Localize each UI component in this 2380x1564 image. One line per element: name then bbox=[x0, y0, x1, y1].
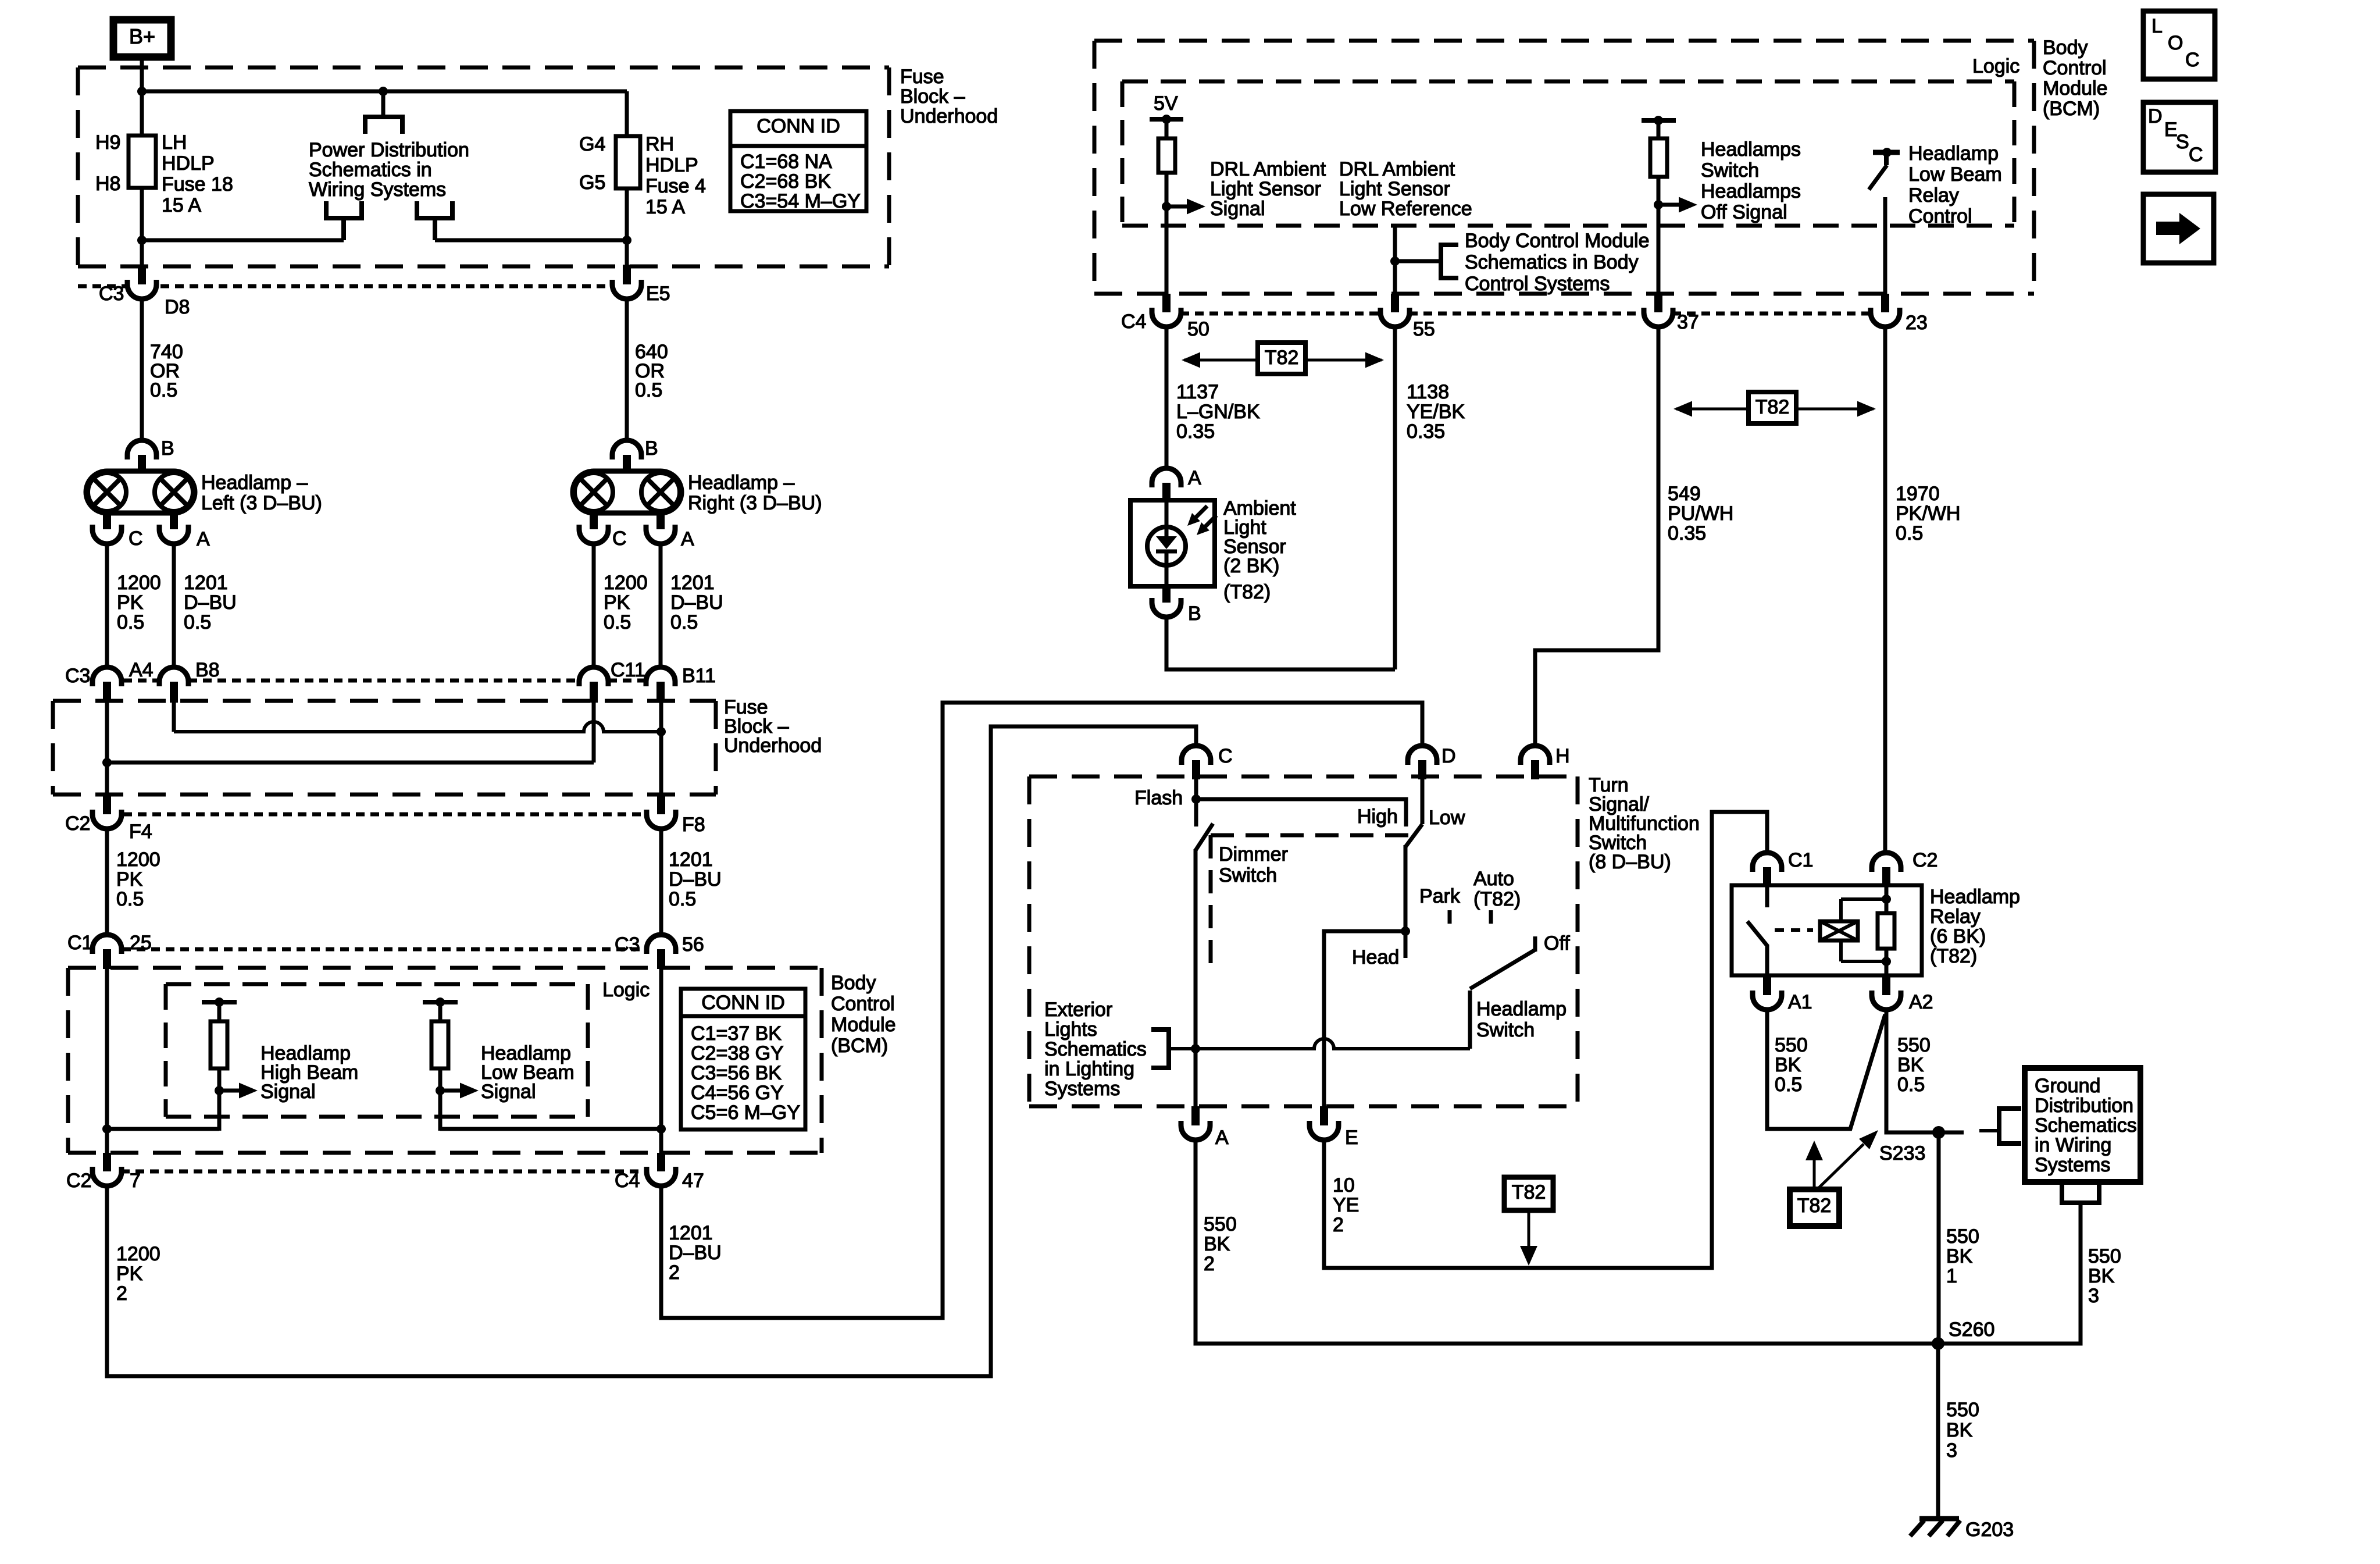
label wire 10 YE 2 bbox=[1333, 1174, 1359, 1236]
connector row dotted line F4/F8 bbox=[123, 813, 647, 817]
svg-text:PK/WH: PK/WH bbox=[1896, 503, 1960, 525]
label wire 1201 D-BU 0.5 left bbox=[184, 572, 237, 633]
wire tap to resistor high beam bbox=[217, 1002, 222, 1023]
label turn signal multifunction switch bbox=[1589, 774, 1700, 873]
svg-text:D8: D8 bbox=[165, 296, 190, 318]
svg-text:0.5: 0.5 bbox=[604, 611, 631, 633]
label wire 1200 PK 0.5 second bbox=[116, 849, 160, 910]
arrow headlamp low beam signal bbox=[440, 1083, 479, 1099]
label 55 pin bbox=[1413, 318, 1435, 340]
label exterior lights schematics bbox=[1044, 999, 1147, 1100]
arrow headlamp high beam signal bbox=[219, 1083, 258, 1099]
reference bracket exterior lights bbox=[1151, 1029, 1196, 1068]
svg-text:Switch: Switch bbox=[1219, 864, 1277, 886]
label H8 pin bbox=[95, 173, 120, 195]
voltage tap 5V bbox=[1150, 115, 1183, 124]
svg-text:550: 550 bbox=[1946, 1399, 1979, 1421]
label C4 pin lower bbox=[615, 1170, 640, 1192]
label low bbox=[1429, 807, 1465, 829]
svg-text:47: 47 bbox=[682, 1170, 704, 1192]
svg-text:G5: G5 bbox=[579, 172, 605, 194]
svg-text:(T82): (T82) bbox=[1223, 581, 1271, 603]
connector B arc (right headlamp) bbox=[612, 440, 641, 459]
svg-text:C3: C3 bbox=[99, 283, 124, 305]
connector C stub right headlamp bbox=[590, 512, 598, 529]
connector C arc right headlamp bbox=[579, 525, 608, 544]
svg-text:10: 10 bbox=[1333, 1174, 1355, 1196]
connector 23 arc bbox=[1871, 308, 1900, 327]
connector F8 arc bbox=[647, 810, 676, 829]
svg-text:0.5: 0.5 bbox=[1896, 522, 1923, 544]
svg-text:5V: 5V bbox=[1154, 92, 1178, 115]
svg-text:Off: Off bbox=[1544, 932, 1570, 954]
splice S260 bbox=[1932, 1337, 1944, 1350]
connector 23 stub bbox=[1881, 294, 1889, 312]
label C3 bbox=[99, 283, 124, 305]
svg-text:C2=68 BK: C2=68 BK bbox=[740, 170, 831, 193]
wire LH fuse to C3 connector bbox=[140, 188, 144, 279]
connector C arc left headlamp bbox=[92, 525, 122, 544]
svg-text:in Lighting: in Lighting bbox=[1044, 1058, 1134, 1080]
relay coil bbox=[1820, 899, 1886, 961]
wire B8 down bbox=[172, 703, 176, 732]
label C2 fuse block bbox=[65, 813, 90, 835]
svg-text:Schematics in: Schematics in bbox=[309, 159, 432, 181]
svg-text:C1: C1 bbox=[1788, 849, 1813, 871]
junction node low beam signal bbox=[436, 1086, 445, 1095]
connector C3 pin D8 stub bbox=[138, 265, 146, 284]
wire 1200 PK 2 to dimmer switch C bbox=[107, 726, 1196, 1376]
label headlamp high beam signal bbox=[261, 1042, 358, 1103]
junction node net1200 inside fuse block bbox=[102, 758, 112, 767]
label C right headlamp bbox=[612, 528, 627, 550]
svg-text:E: E bbox=[1345, 1127, 1358, 1149]
connector C1 stub relay bbox=[1763, 867, 1771, 886]
label logic lower bbox=[602, 979, 650, 1001]
svg-text:HDLP: HDLP bbox=[162, 152, 215, 174]
svg-text:C2: C2 bbox=[66, 1170, 91, 1192]
connector A4 arc bbox=[92, 667, 122, 686]
connector C stub left headlamp bbox=[103, 512, 111, 529]
connector F4 arc bbox=[92, 810, 122, 829]
junction node flash bbox=[1191, 795, 1201, 804]
svg-text:1200: 1200 bbox=[117, 572, 161, 594]
reference bracket power distribution output left bbox=[326, 201, 362, 240]
label B11 bbox=[682, 665, 716, 687]
wire B11 to F8 bbox=[659, 703, 663, 796]
wire D to low lever bbox=[1421, 779, 1425, 824]
voltage tap low beam bbox=[423, 997, 458, 1007]
junction node on wire 25-7 bbox=[102, 1124, 112, 1134]
connector row dotted line 25/56 bbox=[122, 947, 646, 952]
connector C arc switch bbox=[1182, 746, 1211, 765]
label wire 1970 PK/WH bbox=[1896, 483, 1960, 544]
svg-text:C2: C2 bbox=[65, 813, 90, 835]
svg-text:BK: BK bbox=[2088, 1265, 2115, 1287]
svg-text:Body: Body bbox=[831, 972, 876, 994]
connector row dotted line 7/47 bbox=[121, 1170, 647, 1174]
wire resistor high beam down bbox=[217, 1068, 222, 1131]
svg-text:1: 1 bbox=[1946, 1265, 1957, 1287]
wire right bracket to RH fuse bbox=[435, 238, 627, 243]
svg-text:Signal: Signal bbox=[261, 1081, 316, 1103]
wire bus to LH fuse bbox=[140, 91, 144, 138]
label B sensor bbox=[1188, 603, 1201, 625]
label C3 second bbox=[65, 665, 90, 687]
label C switch bbox=[1218, 745, 1233, 767]
svg-text:(T82): (T82) bbox=[1473, 888, 1521, 910]
reference bracket power distribution output right bbox=[417, 201, 452, 240]
connector F8 stub bbox=[657, 795, 665, 814]
wire bus branch down bbox=[381, 91, 386, 119]
contact park tick bbox=[1448, 910, 1452, 924]
label D switch bbox=[1441, 745, 1456, 767]
label wire 550 BK 0.5 A1 bbox=[1775, 1034, 1808, 1096]
logic dashed box upper bbox=[1122, 81, 2014, 226]
label flash bbox=[1134, 787, 1183, 809]
logic dashed box lower bbox=[166, 984, 588, 1117]
svg-text:549: 549 bbox=[1668, 483, 1701, 505]
svg-text:BK: BK bbox=[1897, 1054, 1924, 1076]
svg-text:B+: B+ bbox=[129, 24, 155, 48]
svg-text:Right (3 D–BU): Right (3 D–BU) bbox=[688, 492, 822, 514]
label park bbox=[1419, 885, 1461, 907]
connector A arc sensor bbox=[1152, 468, 1181, 487]
wire 1201 D-BU 2 to dimmer switch D bbox=[661, 703, 1422, 1318]
svg-text:PK: PK bbox=[116, 868, 143, 890]
label head bbox=[1352, 946, 1399, 968]
junction node bus to power distribution bbox=[379, 87, 388, 96]
label LH HDLP fuse bbox=[162, 131, 233, 216]
svg-text:1201: 1201 bbox=[184, 572, 228, 594]
label ground distribution schematics bbox=[2035, 1075, 2137, 1176]
svg-text:B: B bbox=[645, 437, 658, 459]
wire flash to high contact bbox=[1196, 799, 1406, 826]
connector C1-25 arc bbox=[92, 935, 122, 954]
wire high beam branch to net1200 bbox=[107, 1127, 219, 1131]
svg-text:D–BU: D–BU bbox=[669, 1242, 722, 1264]
svg-text:C3: C3 bbox=[65, 665, 90, 687]
label B right headlamp bbox=[645, 437, 658, 459]
connector B8 arc bbox=[159, 667, 188, 686]
wire tap to resistor off signal bbox=[1657, 120, 1661, 140]
svg-text:T82: T82 bbox=[1797, 1195, 1832, 1217]
wire 1200 PK right low beam bbox=[592, 543, 596, 669]
DESC legend box bbox=[2143, 102, 2215, 172]
svg-text:15 A: 15 A bbox=[645, 196, 685, 218]
svg-text:Headlamp –: Headlamp – bbox=[201, 472, 308, 494]
svg-text:O: O bbox=[2168, 32, 2183, 54]
svg-text:B: B bbox=[161, 437, 174, 459]
svg-text:0.35: 0.35 bbox=[1176, 421, 1215, 443]
svg-text:Off Signal: Off Signal bbox=[1701, 201, 1787, 223]
svg-text:550: 550 bbox=[1946, 1225, 1979, 1248]
label A2 relay bbox=[1909, 991, 1933, 1013]
label headlamps switch headlamps off signal bbox=[1701, 138, 1801, 223]
label wire 1200 PK 0.5 left bbox=[117, 572, 161, 633]
svg-text:Schematics in Body: Schematics in Body bbox=[1465, 251, 1639, 273]
connector A1 arc relay bbox=[1753, 991, 1782, 1010]
svg-text:Control: Control bbox=[1908, 205, 1972, 227]
label wire 740 OR 0.5 bbox=[150, 341, 183, 401]
wire 1200 PK left low beam bbox=[105, 543, 109, 669]
label H switch bbox=[1555, 745, 1570, 767]
svg-text:Logic: Logic bbox=[1972, 55, 2019, 77]
reference bracket body control module schematics bbox=[1441, 245, 1458, 278]
svg-text:D: D bbox=[2148, 105, 2163, 127]
LOC legend box bbox=[2143, 11, 2215, 79]
dimmer switch dashed outline bbox=[1211, 835, 1413, 967]
wire B+ to bus bbox=[140, 57, 144, 91]
svg-text:Fuse: Fuse bbox=[900, 66, 944, 88]
svg-text:C3: C3 bbox=[615, 934, 640, 956]
resistor headlamp low beam signal bbox=[431, 1021, 448, 1068]
ground distribution schematics box bbox=[2025, 1068, 2140, 1182]
label 56 pin bbox=[682, 934, 704, 956]
wire 1201 D-BU right high beam bbox=[659, 543, 663, 669]
label C4 pin upper bbox=[1121, 311, 1146, 333]
svg-text:Schematics: Schematics bbox=[1044, 1038, 1147, 1060]
label power distribution reference bbox=[309, 139, 469, 201]
label C1 pin bbox=[67, 932, 92, 954]
bus wire B+ feed bbox=[142, 90, 627, 94]
svg-text:Lights: Lights bbox=[1044, 1018, 1097, 1041]
label G203 bbox=[1965, 1519, 2014, 1541]
svg-text:D–BU: D–BU bbox=[184, 592, 237, 614]
connector E5 stub bbox=[623, 265, 631, 284]
light arrows into sensor bbox=[1187, 506, 1216, 535]
svg-text:A: A bbox=[1188, 467, 1201, 489]
svg-text:1137: 1137 bbox=[1176, 381, 1219, 403]
svg-text:1201: 1201 bbox=[670, 572, 715, 594]
body control module dashed box lower bbox=[68, 968, 822, 1153]
CONN ID table fuse block bbox=[730, 111, 866, 212]
label A sensor bbox=[1188, 467, 1201, 489]
svg-text:T82: T82 bbox=[1755, 396, 1790, 418]
wire 740 OR left headlamp feed bbox=[140, 299, 144, 441]
svg-text:HDLP: HDLP bbox=[645, 154, 698, 176]
svg-text:Switch: Switch bbox=[1701, 159, 1759, 181]
label 23 pin bbox=[1906, 312, 1928, 334]
svg-text:Underhood: Underhood bbox=[900, 105, 998, 127]
wire resistor off signal down bbox=[1657, 177, 1661, 295]
svg-text:Signal: Signal bbox=[481, 1081, 536, 1103]
wire bus to RH fuse bbox=[625, 91, 629, 138]
label 37 pin bbox=[1677, 311, 1699, 333]
svg-text:YE: YE bbox=[1333, 1194, 1359, 1216]
relay K headlamp relay box bbox=[1732, 885, 1922, 975]
contact auto tick bbox=[1489, 910, 1493, 924]
connector row dotted line C3/E5 bbox=[78, 284, 611, 288]
connector A stub right headlamp bbox=[656, 512, 665, 529]
label headlamp low beam signal bbox=[481, 1042, 575, 1103]
svg-text:2: 2 bbox=[1204, 1253, 1215, 1275]
connector C2-7 stub bbox=[103, 1153, 111, 1171]
voltage tap high beam bbox=[202, 997, 237, 1007]
svg-text:H8: H8 bbox=[95, 173, 120, 195]
svg-text:(8 D–BU): (8 D–BU) bbox=[1589, 851, 1671, 873]
svg-text:D: D bbox=[1441, 745, 1456, 767]
junction node headlamps off signal bbox=[1654, 200, 1663, 209]
arrow DRL ambient light sensor signal bbox=[1166, 199, 1205, 215]
contact head stub bbox=[1404, 931, 1408, 958]
connector E arc switch bbox=[1309, 1121, 1339, 1140]
svg-text:Control: Control bbox=[2043, 57, 2107, 79]
connector 37 stub bbox=[1654, 294, 1662, 312]
svg-text:(6 BK): (6 BK) bbox=[1930, 925, 1986, 947]
svg-text:C4=56 GY: C4=56 GY bbox=[691, 1082, 784, 1104]
label wire 550 BK 0.5 A2 bbox=[1897, 1034, 1931, 1096]
connector A stub left headlamp bbox=[170, 512, 178, 529]
junction node net1201 at B11 bbox=[656, 727, 666, 736]
svg-text:550: 550 bbox=[1897, 1034, 1931, 1056]
svg-text:1201: 1201 bbox=[669, 1222, 713, 1244]
svg-text:DRL Ambient: DRL Ambient bbox=[1210, 158, 1326, 180]
svg-text:Auto: Auto bbox=[1473, 868, 1514, 890]
svg-text:0.5: 0.5 bbox=[117, 611, 144, 633]
svg-text:0.5: 0.5 bbox=[670, 611, 698, 633]
svg-text:0.35: 0.35 bbox=[1407, 421, 1445, 443]
svg-text:C2: C2 bbox=[1912, 849, 1937, 871]
svg-text:PU/WH: PU/WH bbox=[1668, 503, 1733, 525]
T82 span arrow 37-23 bbox=[1674, 392, 1876, 423]
label wire 550 BK 3 right bbox=[2088, 1245, 2121, 1307]
wire resistor low beam down bbox=[438, 1068, 443, 1131]
connector row dotted line BCM upper bbox=[1180, 312, 1871, 316]
label F8 bbox=[682, 814, 705, 836]
svg-text:C5=6 M–GY: C5=6 M–GY bbox=[691, 1102, 800, 1124]
svg-text:C1=68 NA: C1=68 NA bbox=[740, 151, 832, 173]
svg-text:(T82): (T82) bbox=[1930, 945, 1977, 967]
label wire 549 PU/WH bbox=[1668, 483, 1733, 544]
label wire 1201 D-BU 0.5 second bbox=[669, 849, 722, 910]
label wire 640 OR 0.5 bbox=[635, 341, 668, 401]
junction node LH fuse output bbox=[137, 236, 147, 245]
svg-text:Module: Module bbox=[2043, 77, 2108, 99]
svg-text:DRL Ambient: DRL Ambient bbox=[1339, 158, 1455, 180]
svg-text:Headlamps: Headlamps bbox=[1701, 138, 1801, 161]
wire 10 YE 2 E to relay C1 bbox=[1324, 812, 1767, 1268]
connector C4-50 stub bbox=[1162, 294, 1171, 312]
wire C2 through relay bbox=[1885, 885, 1889, 975]
svg-text:(BCM): (BCM) bbox=[831, 1035, 888, 1057]
svg-text:Headlamps: Headlamps bbox=[1701, 180, 1801, 202]
svg-text:G4: G4 bbox=[579, 133, 605, 155]
connector F4 stub bbox=[103, 795, 111, 814]
svg-text:Relay: Relay bbox=[1930, 906, 1981, 928]
svg-text:50: 50 bbox=[1187, 318, 1209, 340]
label D8 bbox=[165, 296, 190, 318]
svg-text:Body: Body bbox=[2043, 37, 2088, 59]
svg-text:BK: BK bbox=[1946, 1245, 1973, 1267]
junction node high beam signal bbox=[215, 1086, 224, 1095]
switch headlamp switch lever bbox=[1470, 936, 1535, 989]
svg-text:Head: Head bbox=[1352, 946, 1399, 968]
svg-text:Headlamp: Headlamp bbox=[1476, 998, 1567, 1020]
label body control module schematics bbox=[1465, 230, 1650, 295]
svg-text:Control Systems: Control Systems bbox=[1465, 273, 1610, 295]
svg-text:YE/BK: YE/BK bbox=[1407, 401, 1465, 423]
power feed B+ symbol bbox=[113, 20, 171, 57]
svg-text:Systems: Systems bbox=[2035, 1154, 2110, 1176]
svg-text:C: C bbox=[1218, 745, 1233, 767]
svg-text:0.5: 0.5 bbox=[1775, 1074, 1802, 1096]
label A switch bbox=[1215, 1127, 1229, 1149]
label 7 pin bbox=[130, 1170, 141, 1192]
svg-text:BK: BK bbox=[1946, 1419, 1973, 1441]
svg-text:Fuse 4: Fuse 4 bbox=[645, 175, 706, 197]
connector H stub switch bbox=[1531, 760, 1539, 779]
relay switch contact bbox=[1747, 885, 1768, 975]
label RH HDLP fuse bbox=[645, 133, 706, 218]
label H9 pin bbox=[95, 131, 120, 154]
wire 550 BK 3 to ground bbox=[1936, 1344, 1940, 1519]
junction node at B+ bus left bbox=[137, 87, 147, 96]
label fuse block underhood 2 bbox=[724, 696, 822, 757]
lamp headlamp-left symbol bbox=[86, 471, 195, 513]
svg-text:C4: C4 bbox=[1121, 311, 1146, 333]
connector C3-56 stub bbox=[657, 949, 665, 969]
connector D stub switch bbox=[1418, 760, 1426, 779]
connector C3-56 arc bbox=[647, 935, 676, 954]
junction node low reference branch bbox=[1390, 256, 1400, 266]
wire C to flash contact bbox=[1194, 779, 1198, 826]
wire 5V tap to resistor bbox=[1165, 119, 1169, 140]
label 5V bbox=[1154, 92, 1178, 115]
svg-text:Park: Park bbox=[1419, 885, 1461, 907]
label A left headlamp bbox=[197, 528, 210, 550]
label E switch bbox=[1345, 1127, 1358, 1149]
fuse F4 RH HDLP bbox=[616, 136, 640, 188]
svg-text:2: 2 bbox=[1333, 1214, 1344, 1236]
svg-text:15 A: 15 A bbox=[162, 194, 201, 216]
connector A2 stub relay bbox=[1882, 975, 1890, 995]
svg-text:RH: RH bbox=[645, 133, 674, 155]
wire low reference to 55 bbox=[1393, 226, 1397, 295]
wire low beam branch to net1201 bbox=[440, 1127, 661, 1131]
reference bracket to power distribution (top) bbox=[365, 117, 402, 134]
connector B stub sensor bbox=[1162, 586, 1171, 603]
svg-text:Signal: Signal bbox=[1210, 198, 1265, 220]
connector C2-7 arc bbox=[92, 1167, 122, 1186]
wire 550 BK 2 A to S260 bbox=[1196, 1139, 1938, 1344]
connector C4-47 stub bbox=[657, 1153, 665, 1171]
svg-text:C2=38 GY: C2=38 GY bbox=[691, 1042, 784, 1064]
svg-text:Headlamp: Headlamp bbox=[1930, 886, 2020, 908]
svg-text:S: S bbox=[2176, 131, 2189, 153]
label B left headlamp bbox=[161, 437, 174, 459]
turn signal multifunction switch dashed box bbox=[1029, 776, 1578, 1106]
connector D arc switch bbox=[1408, 746, 1437, 765]
wire low lever to head node bbox=[1404, 845, 1408, 931]
label headlamp left bbox=[201, 472, 322, 514]
connector C4-50 arc bbox=[1152, 308, 1181, 327]
wire A4 to F4 net 1200 bbox=[105, 703, 109, 796]
svg-text:PK: PK bbox=[604, 592, 630, 614]
label fuse block underhood bbox=[900, 66, 998, 127]
svg-text:S233: S233 bbox=[1879, 1142, 1925, 1164]
wire C1-25 to C2-7 bbox=[105, 963, 109, 1154]
wire headlamp switch common with hop bbox=[1196, 991, 1470, 1049]
label headlamp relay bbox=[1930, 886, 2020, 967]
svg-text:D–BU: D–BU bbox=[669, 868, 722, 890]
connector H arc switch bbox=[1521, 746, 1550, 765]
svg-text:0.5: 0.5 bbox=[669, 888, 696, 910]
label 47 pin bbox=[682, 1170, 704, 1192]
wire branch to BCM schematics bracket bbox=[1395, 259, 1441, 263]
label wire 1200 PK 2 bbox=[116, 1243, 160, 1305]
label wire 550 BK 3 lower bbox=[1946, 1399, 1979, 1462]
